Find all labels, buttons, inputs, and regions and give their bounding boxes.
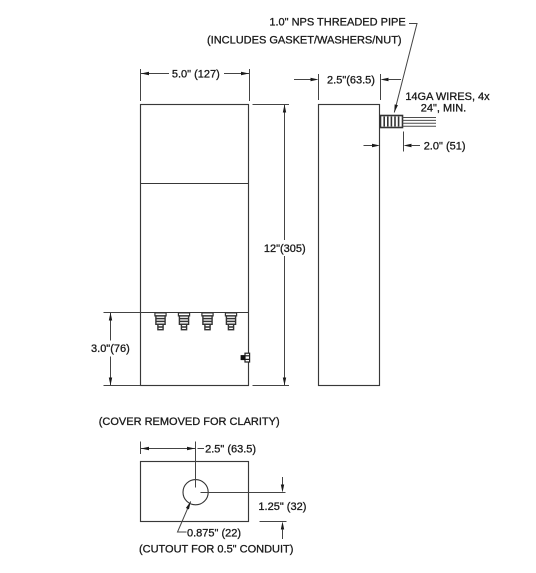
- terminal screw 4: [225, 313, 236, 330]
- hole diameter leader arrowhead: [186, 501, 191, 509]
- svg-text:2.5" (63.5): 2.5" (63.5): [205, 443, 256, 455]
- terminal screw 2: [178, 313, 189, 330]
- svg-text:3.0"(76): 3.0"(76): [91, 343, 130, 355]
- svg-text:12"(305): 12"(305): [264, 243, 306, 255]
- dimension 3.0in terminal section: extension lines: [104, 312, 141, 314]
- cover split line: [141, 183, 249, 185]
- side view enclosure box: [319, 105, 380, 386]
- svg-text:(COVER REMOVED FOR CLARITY): (COVER REMOVED FOR CLARITY): [99, 416, 280, 428]
- terminal screw 1: [155, 313, 166, 330]
- dimension 12in height: dimension line: [284, 105, 286, 241]
- dimension 3.0in terminal section: dimension line: [110, 313, 112, 341]
- lead wires (4x): [403, 118, 437, 127]
- svg-text:5.0" (127): 5.0" (127): [172, 69, 220, 81]
- svg-text:14GA WIRES, 4x: 14GA WIRES, 4x: [405, 91, 490, 103]
- svg-text:1.0" NPS THREADED PIPE: 1.0" NPS THREADED PIPE: [269, 16, 405, 28]
- svg-text:0.875" (22): 0.875" (22): [187, 528, 241, 540]
- svg-text:24", MIN.: 24", MIN.: [421, 102, 466, 114]
- bottom view enclosure box: [141, 462, 249, 522]
- dimension 2.5in depth: extension lines: [318, 74, 320, 100]
- dimension 2.0in pipe length: extension line: [403, 132, 405, 152]
- dimension 5.0in width: extension lines: [140, 69, 142, 101]
- dimension 5.0in width: dimension line: [141, 73, 169, 75]
- terminal strip line: [141, 312, 249, 314]
- dimension 1.25in hole offset: extension lines: [201, 492, 286, 494]
- terminal screw 3: [202, 313, 213, 330]
- dimension 1.25in hole offset: dimension line with outside arrows: [282, 477, 284, 485]
- svg-text:1.25" (32): 1.25" (32): [258, 501, 306, 513]
- dimension 2.5in hole offset: extension lines: [140, 442, 142, 455]
- ground screw on right wall: [241, 353, 250, 362]
- dimension 2.5in hole offset: dimension line: [141, 448, 195, 450]
- pipe callout leader arrowhead: [394, 104, 398, 112]
- conduit cutout circle: [183, 480, 208, 505]
- dimension 2.0in pipe length: dimension line with outside arrows: [364, 145, 373, 147]
- svg-text:(INCLUDES GASKET/WASHERS/NUT): (INCLUDES GASKET/WASHERS/NUT): [207, 35, 402, 47]
- svg-text:(CUTOUT FOR 0.5" CONDUIT): (CUTOUT FOR 0.5" CONDUIT): [139, 543, 293, 555]
- pipe callout leader line: [394, 24, 417, 113]
- svg-text:2.0" (51): 2.0" (51): [424, 140, 466, 152]
- dimension 2.5in depth: dimension line with outside arrows: [294, 79, 311, 81]
- hole diameter leader line: [178, 501, 191, 532]
- front view enclosure box: [141, 105, 249, 386]
- threaded pipe nipple: [381, 116, 403, 128]
- svg-text:2.5"(63.5): 2.5"(63.5): [327, 74, 375, 86]
- dimension 12in height: extension lines: [253, 104, 290, 106]
